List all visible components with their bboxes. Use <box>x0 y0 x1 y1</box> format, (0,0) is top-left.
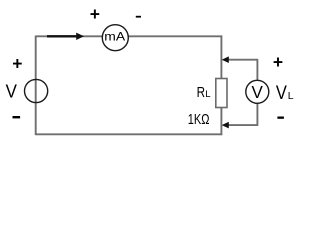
svg-text:+: + <box>273 52 283 72</box>
polarity - (ammeter) <box>136 16 141 18</box>
svg-text:+: + <box>12 54 22 74</box>
wire: top, left corner to ammeter <box>36 35 103 37</box>
svg-text:R: R <box>197 84 205 101</box>
polarity - (voltmeter) <box>277 117 284 119</box>
voltmeter VL <box>246 80 269 103</box>
wire: voltmeter bottom probe vertical <box>256 103 258 125</box>
ammeter mA <box>102 25 128 51</box>
svg-text:V: V <box>252 82 264 103</box>
arrowhead: top probe to node <box>222 56 229 63</box>
svg-text:1KΩ: 1KΩ <box>188 110 210 127</box>
voltage source V <box>24 79 47 102</box>
wire: voltmeter top probe vertical <box>256 60 258 81</box>
svg-text:V: V <box>276 82 287 104</box>
wire: left vertical <box>35 36 37 136</box>
svg-text:+: + <box>90 4 100 24</box>
resistor RL <box>216 79 227 108</box>
arrowhead: bottom probe to node <box>222 122 229 129</box>
current direction arrow on top wire <box>47 33 84 40</box>
svg-text:L: L <box>205 89 211 100</box>
svg-text:V: V <box>6 81 17 102</box>
wire: bottom horizontal <box>36 133 223 135</box>
wire: top, ammeter to top-right corner <box>128 35 222 37</box>
wire: right vertical <box>220 36 222 136</box>
wire: voltmeter top probe horizontal <box>226 59 258 61</box>
wire: voltmeter bottom probe horizontal <box>226 124 258 126</box>
svg-text:L: L <box>288 91 294 102</box>
svg-text:mA: mA <box>104 30 126 44</box>
polarity - (source) <box>13 116 21 118</box>
